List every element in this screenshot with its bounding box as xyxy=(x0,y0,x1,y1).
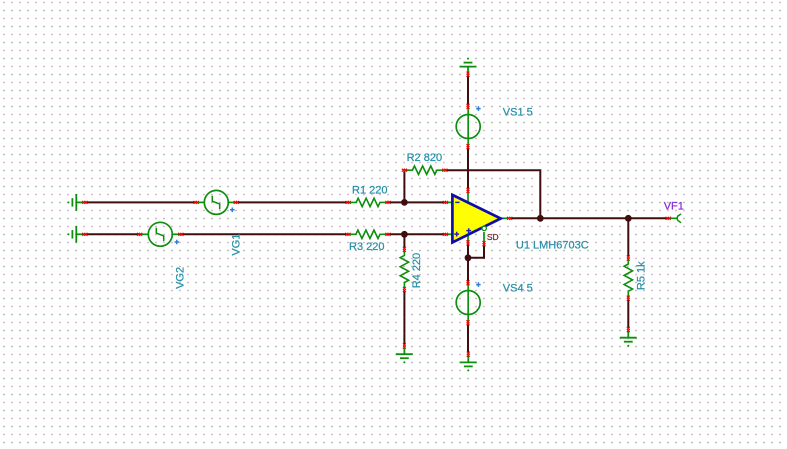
svg-text:VG1: VG1 xyxy=(231,234,243,256)
svg-text:VG2: VG2 xyxy=(174,267,186,289)
svg-text:R4 220: R4 220 xyxy=(411,253,423,288)
svg-text:R3 220: R3 220 xyxy=(349,241,384,253)
svg-text:VS4 5: VS4 5 xyxy=(503,282,533,294)
svg-text:U1 LMH6703C: U1 LMH6703C xyxy=(516,240,589,252)
svg-text:R1 220: R1 220 xyxy=(352,185,387,197)
svg-text:VF1: VF1 xyxy=(664,200,684,212)
svg-text:R2 820: R2 820 xyxy=(407,152,442,164)
svg-text:VS1 5: VS1 5 xyxy=(503,106,533,118)
svg-text:SD: SD xyxy=(487,232,499,242)
svg-text:R5 1k: R5 1k xyxy=(636,261,648,290)
